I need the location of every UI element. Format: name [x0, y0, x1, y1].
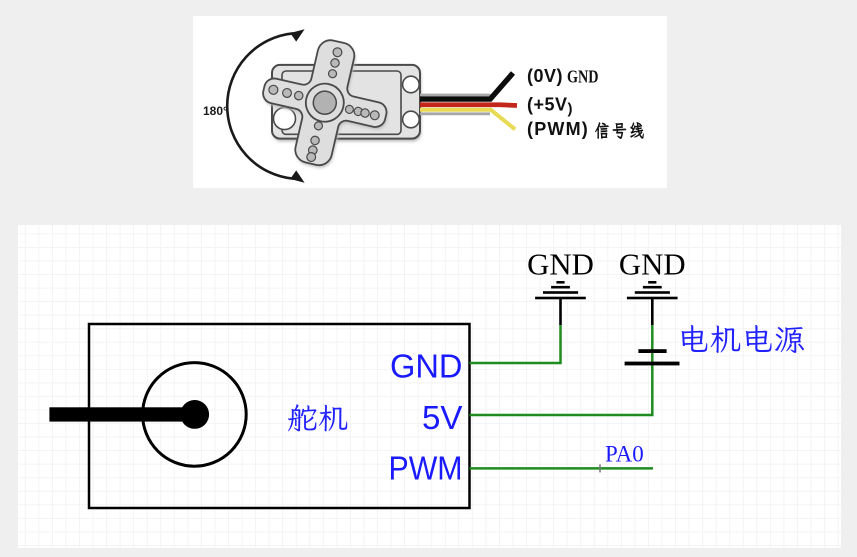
wire red +5V: [420, 102, 517, 107]
svg-text:GND: GND: [390, 348, 463, 385]
ground symbol stem: [651, 299, 654, 325]
ground symbol bar: [535, 297, 586, 300]
svg-text:(+5V): (+5V): [527, 94, 573, 117]
svg-text:(0V): (0V): [527, 66, 563, 86]
schematic panel: [18, 225, 841, 548]
ground symbol bar: [635, 291, 670, 294]
horn hole: [345, 105, 355, 115]
servo horn cross: [250, 28, 400, 178]
label duo ji (servo): [288, 404, 347, 431]
horn hole: [314, 121, 324, 131]
mounting hole right bottom: [403, 111, 420, 128]
servo body inner panel: [282, 71, 401, 134]
wire yellow PWM: [420, 110, 515, 130]
label dian ji dian yuan (motor power): [682, 325, 805, 353]
wire 5V net: [470, 324, 653, 415]
servo shaft arm: [49, 407, 198, 421]
arrowhead top: [290, 29, 304, 41]
svg-text:PA0: PA0: [605, 442, 644, 467]
horn hub center: [311, 89, 339, 117]
wire sheath top gray: [420, 94, 491, 97]
wire black 0V: [420, 73, 513, 99]
wire sheath bottom gray: [420, 112, 490, 115]
servo shaft circle: [143, 363, 247, 467]
servo box U1: [89, 324, 470, 508]
svg-text:GND: GND: [527, 247, 594, 281]
ground symbol bar: [627, 297, 678, 300]
battery plate short (negative): [638, 349, 666, 353]
battery plate long (positive): [625, 362, 680, 366]
horn hole: [294, 91, 304, 101]
horn hole: [332, 47, 343, 58]
mounting hole right top: [403, 76, 420, 93]
horn hole: [353, 107, 363, 117]
svg-text:PWM: PWM: [389, 450, 463, 487]
servo body: [272, 65, 420, 139]
servo body shadow: [273, 68, 421, 142]
horn hole: [306, 152, 317, 163]
svg-text:(PWM): (PWM): [527, 119, 589, 139]
svg-text:5V: 5V: [422, 400, 463, 437]
servo photo panel background: [193, 16, 667, 188]
wire GND net: [470, 325, 561, 363]
wire PWM net: [470, 467, 654, 470]
mounting hole left bottom: [274, 108, 296, 130]
horn hub ring: [302, 80, 348, 126]
ground symbol bar: [648, 281, 656, 284]
ground symbol stem: [559, 299, 562, 325]
pin tick PA0: [599, 464, 601, 472]
horn hole: [360, 108, 370, 118]
ground symbol bar: [551, 286, 570, 289]
svg-text:180°: 180°: [203, 104, 228, 118]
horn hole: [308, 145, 318, 155]
ground symbol bar: [556, 281, 564, 284]
servo horn shadow: [251, 30, 401, 180]
ground symbol bar: [643, 286, 662, 289]
horn hole: [369, 110, 380, 121]
horn hole: [282, 88, 293, 99]
label xin hao xian (signal wire): [595, 122, 643, 138]
horn hole: [268, 84, 279, 95]
horn hole: [330, 58, 340, 68]
servo shaft hub dot: [180, 400, 209, 429]
horn hole: [310, 135, 320, 145]
arrowhead bottom: [290, 170, 304, 182]
svg-text:GND: GND: [619, 247, 686, 281]
horn hole: [328, 69, 338, 79]
svg-text:GND: GND: [567, 66, 599, 86]
ground symbol bar: [543, 291, 578, 294]
rotation arc 180 degrees: [227, 33, 293, 178]
